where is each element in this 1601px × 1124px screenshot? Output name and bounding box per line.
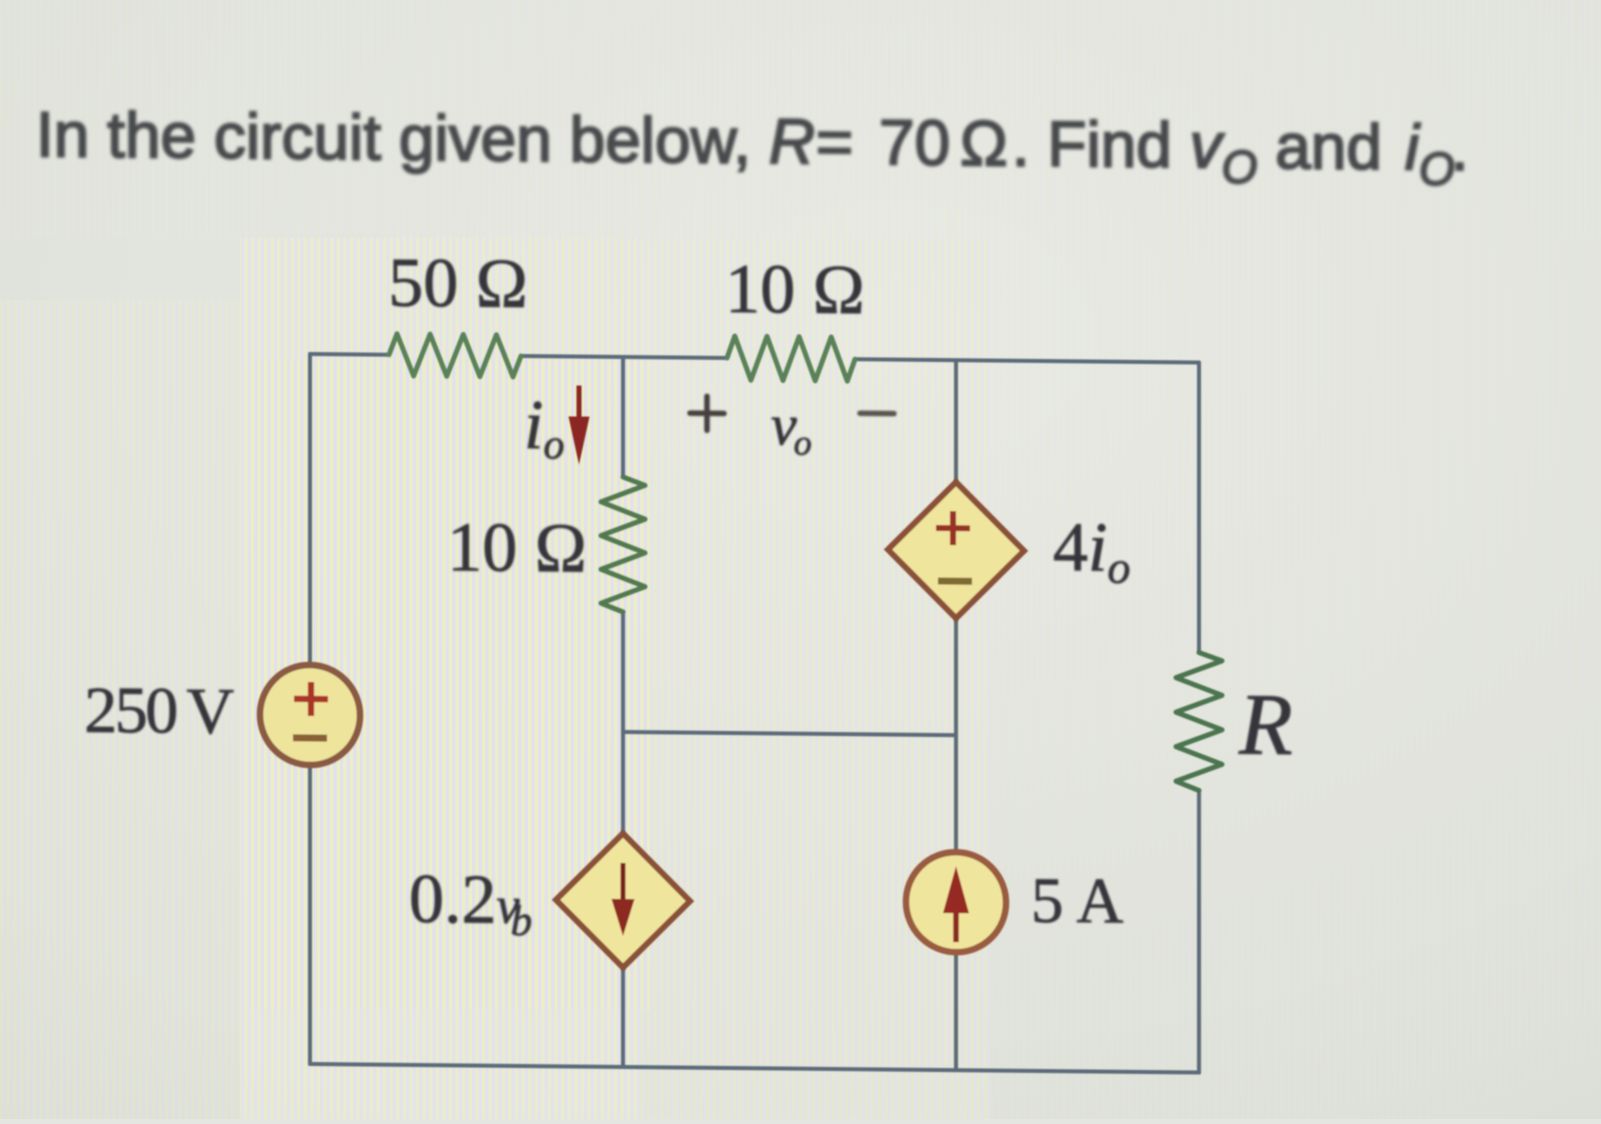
arrow io bbox=[569, 385, 590, 464]
resistor 50ohm bbox=[389, 334, 521, 377]
wire branch vertical upper bbox=[954, 360, 958, 483]
wire top right segment bbox=[855, 359, 1199, 362]
wire right vertical upper bbox=[1197, 363, 1201, 653]
current source 5A bbox=[906, 852, 1006, 953]
wire middle horizontal bbox=[623, 732, 956, 735]
svg-text:R: R bbox=[1238, 677, 1293, 775]
wire middle vertical upper bbox=[621, 357, 625, 477]
wire middle vertical mid bbox=[621, 612, 625, 834]
wire right vertical lower bbox=[1197, 791, 1201, 1073]
wire branch vertical mid bbox=[954, 617, 958, 851]
wire left vertical upper bbox=[308, 354, 312, 663]
svg-text:250 V: 250 V bbox=[84, 674, 233, 748]
wire left vertical lower bbox=[308, 767, 312, 1064]
svg-text:10 Ω: 10 Ω bbox=[447, 509, 587, 587]
wire top middle segment bbox=[521, 356, 727, 358]
dependent source 4io bbox=[888, 482, 1024, 619]
wire branch vertical lower bbox=[954, 953, 958, 1070]
voltage source 250V bbox=[260, 664, 360, 765]
svg-text:50 Ω: 50 Ω bbox=[388, 245, 528, 323]
label plus vo minus bbox=[690, 392, 894, 464]
resistor R bbox=[1176, 652, 1222, 790]
dependent source 0.2vb bbox=[556, 833, 690, 968]
svg-text:10 Ω: 10 Ω bbox=[725, 251, 865, 329]
resistor 10ohm top bbox=[727, 336, 855, 381]
wire bottom bbox=[310, 1064, 1199, 1073]
wire top left segment bbox=[310, 352, 389, 357]
svg-text:5 A: 5 A bbox=[1031, 865, 1124, 938]
resistor 10ohm middle bbox=[601, 477, 645, 612]
title bbox=[36, 98, 1469, 195]
wire middle vertical lower bbox=[621, 967, 625, 1067]
